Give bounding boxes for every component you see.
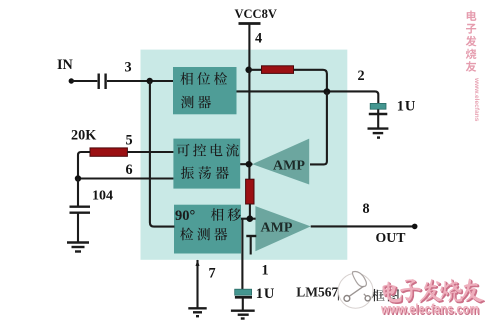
wire junction down to AMP1 output stub xyxy=(310,92,327,165)
svg-text:VCC8V: VCC8V xyxy=(235,7,277,21)
svg-text:3: 3 xyxy=(125,60,132,76)
op-amp U2 AMP (right-pointing) xyxy=(255,206,310,251)
svg-text:6: 6 xyxy=(126,162,133,178)
watermark vertical 电子发烧友 (top right corner) xyxy=(466,11,477,72)
wire IN to capacitor xyxy=(71,80,97,82)
junction rail / AMP1 apex wire xyxy=(246,161,252,167)
wire 104 to ground xyxy=(77,214,79,242)
wire resistor R-int leads and corner to pin2 junction xyxy=(249,70,327,92)
svg-text:www.elecfans.com: www.elecfans.com xyxy=(380,301,479,317)
ground below pin 7 xyxy=(188,308,206,316)
wire 90deg box output to AMP2 input xyxy=(241,218,256,220)
capacitor 1U right bottom plate xyxy=(369,113,388,116)
internal stub T below AMP2 input xyxy=(246,236,256,255)
wire box1 output to pin 2 xyxy=(237,91,379,103)
svg-text:AMP: AMP xyxy=(273,158,305,173)
wire VCO output to AMP1 apex xyxy=(240,163,252,165)
wire capacitor to pin 3 / box1 xyxy=(107,80,173,82)
junction pin3 branch xyxy=(147,78,153,84)
wire pin 7 with arrow xyxy=(196,260,198,308)
wire internal rail down xyxy=(248,70,250,179)
wire pin 6 xyxy=(77,177,173,179)
capacitor C-in (input coupling) xyxy=(99,74,106,90)
ground below 104 xyxy=(67,243,89,252)
wire resistor bottom to AMP2 input junction xyxy=(249,204,251,219)
capacitor 1U bottom plate xyxy=(235,296,252,299)
watermark logo circle xyxy=(338,272,373,309)
svg-text:5: 5 xyxy=(126,133,133,149)
ground below right 1U xyxy=(368,129,389,138)
capacitor 1U (pin 2 filter) teal plate xyxy=(370,103,386,109)
node IN terminal dot xyxy=(69,78,74,83)
caption 内部 (behind logo) xyxy=(338,289,364,301)
block: phase detector 相位检测器 xyxy=(173,67,237,114)
svg-text:www.elecfans: www.elecfans xyxy=(473,77,480,122)
svg-text:AMP: AMP xyxy=(261,221,293,236)
junction pin4 / internal resistor xyxy=(245,67,252,74)
svg-text:2: 2 xyxy=(358,68,365,84)
svg-text:1U: 1U xyxy=(397,98,416,114)
wire VCC down pin 4 into block xyxy=(248,24,250,71)
IC body block LM567 xyxy=(141,50,348,260)
ground below 1U (pin1) xyxy=(231,311,255,319)
caption 框图 xyxy=(372,289,399,302)
VCC8V power rail bar xyxy=(239,22,261,25)
wire AMP2 output to OUT pin 8 xyxy=(311,225,415,227)
resistor R-int2 (vertical) xyxy=(246,179,254,204)
wire 20K left lead down xyxy=(78,152,90,179)
junction AMP2 input / pin 1 xyxy=(247,215,254,222)
wire junction down to capacitor 104 xyxy=(77,179,79,206)
block: 90-degree phase shift detector 90°相移检测器 xyxy=(174,205,241,254)
watermark text 电子发烧友 xyxy=(384,280,485,304)
resistor 20K xyxy=(90,148,127,156)
wire 1U to ground xyxy=(242,297,244,310)
junction pin2 xyxy=(324,88,331,95)
svg-text:OUT: OUT xyxy=(376,230,406,245)
wire right 1U to ground xyxy=(377,109,379,114)
svg-text:4: 4 xyxy=(255,31,262,47)
svg-text:LM567: LM567 xyxy=(296,284,338,299)
node OUT terminal dot xyxy=(412,224,418,230)
block: controlled current oscillator 可控电流振荡器 xyxy=(173,139,240,189)
svg-text:90°: 90° xyxy=(175,208,196,224)
wire 20K right lead to pin 5 xyxy=(127,151,173,153)
capacitor 1U (pin 1 filter) teal plate xyxy=(235,289,252,295)
svg-text:104: 104 xyxy=(92,188,113,203)
svg-text:IN: IN xyxy=(57,57,74,73)
capacitor 104 xyxy=(70,207,91,213)
resistor R-int (horizontal, internal) xyxy=(262,66,294,74)
svg-text:20K: 20K xyxy=(71,128,96,144)
wire pin3 branch down to 90deg box xyxy=(150,81,175,227)
svg-text:8: 8 xyxy=(363,201,370,217)
wire pin 1 down to filter capacitor xyxy=(241,219,243,290)
junction pin6 / 20K / 104 xyxy=(75,175,81,181)
op-amp U1 AMP (left-pointing) xyxy=(252,139,309,185)
svg-text:1U: 1U xyxy=(256,286,275,302)
svg-text:1: 1 xyxy=(262,263,269,279)
svg-text:7: 7 xyxy=(209,266,216,282)
